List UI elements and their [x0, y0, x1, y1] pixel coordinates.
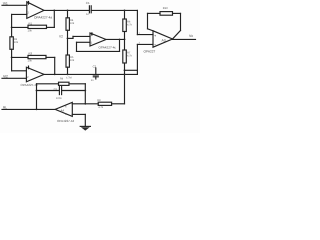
wire U1A inverting input: [12, 14, 27, 27]
svg-text:100n: 100n: [56, 97, 62, 100]
resistor R10 feedback: [148, 7, 181, 39]
resistor R4: [66, 10, 75, 55]
svg-text:10k: 10k: [70, 59, 75, 62]
resistor R8: [72, 99, 124, 109]
resistor R1: [12, 21, 55, 32]
node junction rail x54.3: [53, 10, 55, 12]
svg-text:OPA4227-4b: OPA4227-4b: [21, 83, 38, 87]
wire Vi2 input: [2, 77, 26, 79]
svg-text:R10: R10: [163, 7, 168, 10]
svg-text:C1: C1: [86, 1, 90, 5]
resistor R7: [123, 39, 133, 70]
svg-text:OPA227: OPA227: [144, 50, 156, 54]
wire U2 - input: [137, 44, 153, 74]
svg-text:1n: 1n: [86, 13, 89, 16]
svg-text:OPA4227-4c: OPA4227-4c: [99, 45, 117, 49]
wire rail corner down to U2 + input: [137, 10, 153, 34]
wire U1C output: [106, 38, 125, 40]
svg-text:10k: 10k: [28, 60, 33, 63]
wire D network left vertical: [36, 84, 38, 110]
op-amp U2: [144, 31, 173, 54]
node junction RL wire: [36, 109, 38, 111]
resistor R6: [123, 10, 133, 39]
wire V2 to U1C input: [68, 37, 74, 39]
svg-text:10k: 10k: [70, 22, 75, 25]
wire U1D + input to ground: [72, 114, 85, 126]
resistor R5: [66, 55, 75, 74]
node junction bus x124.5: [124, 74, 126, 76]
svg-text:Vo: Vo: [189, 34, 193, 38]
node Vi1: [2, 2, 27, 6]
svg-text:A3: A3: [162, 39, 166, 43]
ground: [80, 126, 90, 130]
wire upper hairpin to U2 inverting input: [125, 69, 138, 71]
node junction bus x54.7: [54, 74, 56, 76]
svg-text:4.7k: 4.7k: [127, 55, 133, 58]
node junction rail x124.5: [124, 10, 126, 12]
svg-text:10k: 10k: [14, 41, 19, 44]
op-amp U1A: [27, 1, 53, 20]
svg-text:V2: V2: [59, 34, 63, 38]
op-amp U1C buffer: [90, 32, 116, 49]
node junction U1C output feedback: [119, 39, 121, 41]
node junction rail x67.5: [67, 10, 69, 12]
svg-text:R8: R8: [97, 99, 101, 102]
wire U1C feedback loop: [77, 39, 120, 51]
capacitor C2: [91, 65, 99, 82]
node Vi2: [2, 75, 26, 79]
op-amp U1B: [21, 66, 45, 88]
node junction R3 left: [11, 57, 13, 59]
wire U2 output: [173, 38, 196, 40]
op-amp U1D points left: [55, 102, 74, 123]
node V2: [59, 34, 90, 39]
node junction R1 left: [11, 27, 13, 29]
wire RL to U1D output: [2, 108, 55, 110]
wire node to U1B top input: [12, 57, 27, 70]
node junction line70 x124.5: [124, 69, 126, 71]
capacitor C1: [86, 1, 91, 16]
node junction U1C output chain: [124, 39, 126, 41]
wire R1 right to rail: [53, 10, 55, 27]
wire R3 right to bus: [54, 57, 56, 74]
wire Vi1 input: [2, 4, 27, 6]
svg-text:A4: A4: [61, 108, 65, 112]
svg-text:OPA4227-4a: OPA4227-4a: [34, 16, 52, 20]
resistor R3: [12, 51, 55, 62]
capacitor C3: [37, 87, 86, 100]
svg-text:10k: 10k: [28, 30, 33, 33]
resistor R2: [10, 27, 19, 57]
node RL: [2, 105, 55, 109]
svg-text:R1: R1: [29, 21, 33, 25]
node junction C3 right: [84, 90, 86, 92]
wire top rail U1A output: [44, 9, 137, 11]
wire bus U1B output: [44, 73, 137, 75]
wire D network right vertical: [84, 84, 86, 104]
svg-text:4.7k: 4.7k: [98, 106, 104, 109]
svg-text:4.7M: 4.7M: [66, 76, 72, 79]
svg-text:OPA4227-4d: OPA4227-4d: [57, 119, 74, 123]
node junction R8 line: [84, 103, 86, 105]
svg-text:R3: R3: [29, 51, 33, 55]
node junction C3 left: [36, 90, 38, 92]
svg-text:4.7k: 4.7k: [127, 24, 133, 27]
node junction bus x67.5: [67, 74, 69, 76]
svg-text:RL: RL: [3, 105, 7, 109]
resistor R9 top branch: [37, 76, 86, 85]
wire chain down through bus: [124, 70, 126, 104]
